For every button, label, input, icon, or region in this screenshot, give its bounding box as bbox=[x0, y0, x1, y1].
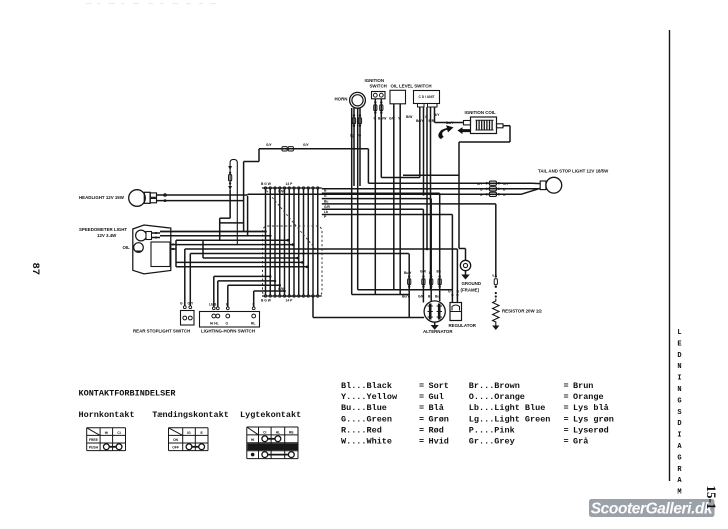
svg-text:G/R: G/R bbox=[324, 205, 330, 209]
svg-text:HORN: HORN bbox=[335, 97, 348, 102]
svg-text:G/Y: G/Y bbox=[266, 143, 272, 147]
svg-text:Lys blå: Lys blå bbox=[573, 403, 609, 413]
svg-text:LIGHTING-HORN SWITCH: LIGHTING-HORN SWITCH bbox=[201, 329, 255, 334]
svg-text:Blå: Blå bbox=[429, 403, 444, 413]
svg-text:12V 3.4W: 12V 3.4W bbox=[97, 233, 117, 238]
svg-text:Lb B: Lb B bbox=[209, 303, 217, 307]
svg-text:Bu/Y: Bu/Y bbox=[404, 271, 412, 275]
svg-text:B G W: B G W bbox=[261, 299, 272, 303]
svg-text:PUSH: PUSH bbox=[89, 446, 99, 450]
svg-text:SPEEDOMETER LIGHT: SPEEDOMETER LIGHT bbox=[79, 227, 127, 232]
svg-text:OFF: OFF bbox=[172, 446, 179, 450]
svg-text:P....Pink: P....Pink bbox=[469, 425, 515, 435]
svg-text:14 P: 14 P bbox=[286, 299, 294, 303]
svg-text:Bu: Bu bbox=[324, 199, 328, 203]
svg-text:Bl...Black: Bl...Black bbox=[341, 381, 392, 391]
svg-text:Gul: Gul bbox=[429, 392, 444, 402]
svg-text:FREE: FREE bbox=[89, 438, 99, 442]
svg-text:ScooterGalleri.dk: ScooterGalleri.dk bbox=[591, 500, 714, 517]
svg-text:G/R: G/R bbox=[420, 270, 426, 274]
svg-text:=: = bbox=[419, 392, 424, 402]
svg-text:G: G bbox=[448, 290, 451, 294]
svg-text:KONTAKTFORBINDELSER: KONTAKTFORBINDELSER bbox=[79, 389, 177, 399]
svg-text:G/R: G/R bbox=[418, 295, 424, 299]
svg-text:Hi: Hi bbox=[105, 431, 108, 435]
svg-text:=: = bbox=[419, 381, 424, 391]
svg-text:Grå: Grå bbox=[573, 437, 588, 447]
svg-text:I: I bbox=[677, 432, 681, 440]
svg-text:IGNITION COIL: IGNITION COIL bbox=[465, 110, 497, 115]
svg-text:=: = bbox=[419, 414, 424, 424]
svg-text:O....Orange: O....Orange bbox=[469, 392, 525, 402]
svg-text:Ci: Ci bbox=[263, 430, 266, 434]
svg-text:15-1: 15-1 bbox=[704, 486, 719, 510]
svg-text:O: O bbox=[226, 322, 229, 326]
svg-text:N: N bbox=[677, 386, 681, 394]
svg-text:E: E bbox=[677, 340, 681, 348]
svg-text:HEADLIGHT 12V 15W: HEADLIGHT 12V 15W bbox=[79, 195, 125, 200]
svg-text:W....White: W....White bbox=[341, 437, 392, 447]
svg-text:OIL LEVEL SWITCH: OIL LEVEL SWITCH bbox=[391, 83, 432, 88]
svg-text:Ci: Ci bbox=[117, 431, 120, 435]
svg-text:IGNITION: IGNITION bbox=[365, 78, 385, 83]
svg-text:RE: RE bbox=[289, 430, 294, 434]
svg-text:REAR STOPLIGHT SWITCH: REAR STOPLIGHT SWITCH bbox=[133, 329, 190, 334]
svg-text:ON: ON bbox=[173, 438, 179, 442]
svg-text:S: S bbox=[677, 409, 681, 417]
svg-text:=: = bbox=[564, 392, 569, 402]
svg-text:I: I bbox=[677, 375, 681, 383]
svg-text:M: M bbox=[677, 489, 681, 497]
svg-text:Lyserød: Lyserød bbox=[573, 425, 609, 435]
svg-text:Bu/Y: Bu/Y bbox=[402, 295, 410, 299]
svg-text:Bu...Blue: Bu...Blue bbox=[341, 403, 387, 413]
svg-text:REGULATOR: REGULATOR bbox=[449, 323, 477, 328]
svg-text:G: G bbox=[180, 302, 183, 306]
svg-text:B/W: B/W bbox=[406, 115, 413, 119]
svg-text:N: N bbox=[677, 363, 681, 371]
svg-text:G: G bbox=[677, 454, 681, 462]
svg-text:G: G bbox=[503, 193, 506, 197]
svg-text:HI: HI bbox=[251, 438, 254, 442]
svg-text:Hi HL: Hi HL bbox=[210, 322, 219, 326]
svg-text:G/Y: G/Y bbox=[503, 182, 509, 186]
svg-text:L: L bbox=[677, 329, 681, 337]
svg-text:Br...Brown: Br...Brown bbox=[469, 381, 520, 391]
svg-text:D: D bbox=[677, 420, 681, 428]
svg-text:G: G bbox=[359, 134, 362, 138]
svg-text:G....Green: G....Green bbox=[341, 414, 392, 424]
svg-text:Orange: Orange bbox=[573, 392, 604, 402]
svg-text:87: 87 bbox=[29, 263, 41, 276]
svg-text:=: = bbox=[564, 414, 569, 424]
svg-text:Grøn: Grøn bbox=[429, 414, 449, 424]
svg-text:G/Y: G/Y bbox=[477, 182, 483, 186]
svg-text:B G W: B G W bbox=[261, 182, 272, 186]
svg-text:C D I UNIT: C D I UNIT bbox=[418, 95, 434, 99]
svg-text:SWITCH: SWITCH bbox=[370, 83, 387, 88]
svg-text:Lb: Lb bbox=[324, 210, 328, 214]
svg-text:Lys grøn: Lys grøn bbox=[573, 414, 614, 424]
svg-text:Bu/W: Bu/W bbox=[378, 117, 387, 121]
svg-text:Hvid: Hvid bbox=[429, 437, 449, 447]
svg-text:R....Red: R....Red bbox=[341, 425, 382, 435]
svg-text:D: D bbox=[677, 352, 681, 360]
svg-text:G/W: G/W bbox=[278, 190, 285, 194]
svg-text:Lg...Light Green: Lg...Light Green bbox=[469, 414, 551, 424]
svg-text:Bu: Bu bbox=[435, 295, 439, 299]
svg-text:GROUND: GROUND bbox=[462, 281, 482, 286]
svg-text:=: = bbox=[419, 425, 424, 435]
svg-text:Gr...Grey: Gr...Grey bbox=[469, 437, 515, 447]
svg-text:OIL: OIL bbox=[123, 245, 131, 250]
svg-text:Y....Yellow: Y....Yellow bbox=[341, 392, 398, 402]
svg-text:G: G bbox=[677, 397, 681, 405]
svg-text:=: = bbox=[564, 425, 569, 435]
svg-text:=: = bbox=[419, 437, 424, 447]
svg-text:Sort: Sort bbox=[429, 381, 449, 391]
svg-text:=: = bbox=[564, 381, 569, 391]
svg-text:Lb...Light Blue: Lb...Light Blue bbox=[469, 403, 546, 413]
svg-text:=: = bbox=[564, 403, 569, 413]
svg-text:G/Y: G/Y bbox=[303, 143, 309, 147]
svg-text:14 P: 14 P bbox=[286, 182, 294, 186]
svg-text:=: = bbox=[564, 437, 569, 447]
svg-text:Hornkontakt: Hornkontakt bbox=[79, 410, 135, 420]
svg-text:G: G bbox=[480, 193, 483, 197]
svg-text:Lygtekontakt: Lygtekontakt bbox=[240, 410, 301, 420]
svg-text:=: = bbox=[419, 403, 424, 413]
svg-text:(FRAME): (FRAME) bbox=[461, 287, 480, 292]
svg-text:RESISTOR 20W 1Ω: RESISTOR 20W 1Ω bbox=[502, 309, 542, 314]
svg-text:G: G bbox=[324, 194, 327, 198]
svg-text:IG: IG bbox=[187, 431, 191, 435]
svg-text:Brun: Brun bbox=[573, 381, 593, 391]
svg-text:Tændingskontakt: Tændingskontakt bbox=[152, 410, 229, 420]
svg-text:RL: RL bbox=[251, 322, 255, 326]
svg-text:TAIL AND STOP LIGHT 12V 18/5W: TAIL AND STOP LIGHT 12V 18/5W bbox=[538, 169, 609, 174]
svg-text:ALTERNATOR: ALTERNATOR bbox=[423, 329, 453, 334]
svg-text:Rød: Rød bbox=[429, 425, 444, 435]
svg-text:HL: HL bbox=[276, 430, 280, 434]
svg-text:Bu: Bu bbox=[437, 270, 441, 274]
